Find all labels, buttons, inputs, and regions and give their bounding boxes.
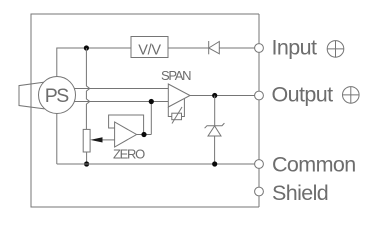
wire bus Output to Common — [258, 100, 260, 160]
svg-text:Input: Input — [272, 36, 317, 60]
wire SPAN output to Output terminal — [190, 95, 255, 97]
svg-text:Common: Common — [272, 153, 356, 177]
zener diode Z1 cathode bar with bent ends — [205, 123, 225, 128]
wire PS upper output to SPAN — [74, 88, 168, 90]
sensor PS circle — [39, 77, 76, 114]
wire PS lower output to SPAN — [74, 101, 168, 103]
node junction dot zener to common — [212, 161, 217, 166]
wire vertical from junction to ZERO pot with hops — [86, 48, 89, 129]
polarity symbol plus at Input — [327, 41, 344, 58]
svg-text:SPAN: SPAN — [161, 68, 191, 83]
enclosure frame — [31, 14, 259, 207]
wire wiper to ZERO amp input — [101, 139, 115, 141]
wire PS top to V/V input — [57, 48, 131, 77]
trimmer R2 adjustment diagonal — [172, 107, 182, 124]
wire diode to Input terminal — [219, 47, 254, 49]
node junction dot pot to common — [84, 161, 89, 166]
svg-text:V/V: V/V — [138, 43, 161, 59]
trimmer R2 body (SPAN adjust) — [172, 113, 182, 120]
box U1 V/V converter — [131, 37, 168, 58]
diode D1 cathode bar — [208, 41, 210, 54]
wire top bus to Input terminal — [258, 14, 260, 44]
arrow wiper of potentiometer R1 — [90, 137, 102, 142]
wire bus Common to Shield — [258, 168, 260, 187]
wire zener bottom to common rail — [214, 136, 216, 164]
diode D1 triangle — [209, 42, 220, 54]
terminal Shield circle — [255, 187, 264, 196]
wire ZERO output up to lower PS line — [150, 102, 152, 135]
svg-text:PS: PS — [45, 85, 70, 107]
terminal Common circle — [255, 160, 264, 169]
wire bus Shield to bottom frame — [258, 196, 260, 207]
pressure port of PS — [19, 82, 45, 109]
wire pot bottom to common rail — [86, 152, 88, 164]
op-amp ZERO triangle — [115, 122, 137, 147]
zener diode Z1 triangle — [208, 126, 221, 136]
polarity symbol plus at Output — [343, 87, 360, 104]
wire zener top — [214, 96, 216, 126]
wire PS bottom to common rail — [56, 114, 58, 165]
svg-text:ZERO: ZERO — [113, 147, 145, 162]
node junction dot ZERO output — [141, 132, 146, 137]
node junction dot on V/V input wire — [84, 45, 89, 50]
wire SPAN trimmer right leg — [182, 99, 185, 117]
terminal Input circle — [255, 44, 264, 53]
wire ZERO output — [137, 134, 152, 136]
wire bus Input to Output — [258, 52, 260, 91]
potentiometer R1 body (ZERO adjust) — [83, 129, 90, 152]
svg-text:Shield: Shield — [272, 181, 328, 205]
wire ZERO feedback loop — [109, 115, 144, 135]
wire common rail — [57, 163, 255, 165]
node junction dot SPAN output / zener — [212, 93, 217, 98]
node junction dot on lower PS line — [149, 99, 154, 104]
op-amp SPAN triangle — [168, 84, 190, 107]
wire V/V output to diode — [168, 47, 209, 49]
terminal Output circle — [255, 91, 264, 100]
svg-text:Output: Output — [272, 82, 334, 106]
wire SPAN trimmer left leg — [168, 107, 172, 117]
